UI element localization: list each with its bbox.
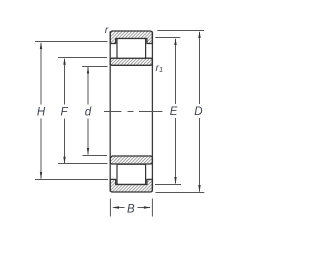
svg-text:r1: r1 [156,62,164,74]
extension line H bottom [35,179,108,181]
extension line F top [58,57,107,59]
chamfer label r1 (right of top inner ring) [156,62,164,74]
dimension E line with arrows [174,38,176,184]
dimension H label [37,107,46,119]
dimension D label [194,106,202,118]
svg-text:d: d [85,107,92,119]
dimension B line with arrows [112,206,151,208]
extension line D bottom [156,192,205,194]
svg-text:H: H [37,107,46,119]
extension line H top [35,41,108,43]
extension line B left [109,199,111,217]
extension line F bottom [58,163,108,165]
outer ring top cross-section (hatched) [110,31,152,44]
dimension E label [170,106,178,118]
extension line d top [82,66,108,68]
inner ring top cross-section (hatched) [110,58,152,65]
roller top (white rectangle) [117,39,146,59]
extension line d bottom [83,155,108,157]
extension line E top [155,37,180,39]
chamfer label r (top left) [105,24,109,36]
dimension F label [60,107,68,119]
outer ring bottom cross-section (hatched) [110,179,152,192]
extension line B right [151,199,153,217]
extension line E bottom [155,184,181,186]
svg-text:E: E [170,106,178,118]
svg-text:F: F [60,107,68,119]
svg-text:D: D [194,106,202,118]
svg-text:r: r [105,24,109,36]
dimension d label [85,107,92,119]
dimension D line with arrows [198,31,200,192]
roller bottom (white rectangle) [117,164,146,184]
dimension F line with arrows [63,58,65,164]
inner ring bottom cross-section (hatched) [110,156,152,164]
extension line D top [157,30,204,32]
dimension B label [127,204,135,216]
wire left face line of bearing [109,32,111,192]
centerline (dash-dot axis) [104,111,163,113]
wire right face line of bearing [151,32,153,192]
svg-text:B: B [127,204,135,216]
dimension d line with arrows [87,67,89,156]
dimension H line with arrows [40,42,42,179]
